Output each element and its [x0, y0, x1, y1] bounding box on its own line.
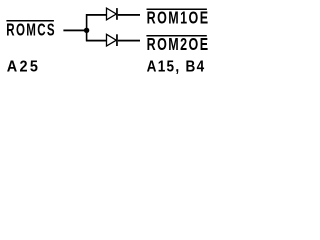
net label ROM1OE (active-low, overline) — [147, 8, 210, 28]
svg-text:ROM1OE: ROM1OE — [147, 8, 210, 28]
svg-text:ROM2OE: ROM2OE — [147, 34, 210, 54]
wire ROMCS to junction — [63, 30, 86, 32]
wire D2 cathode to ROM2OE — [118, 40, 140, 42]
diode D2 — [107, 34, 118, 46]
svg-text:ROMCS: ROMCS — [6, 20, 56, 40]
net label ROM2OE (active-low, overline) — [146, 34, 209, 54]
svg-text:A15, B4: A15, B4 — [147, 58, 206, 75]
svg-text:A25: A25 — [7, 59, 40, 76]
wire to diode D2 anode — [86, 40, 107, 42]
wire D1 cathode to ROM1OE — [118, 14, 140, 16]
wire to diode D1 anode — [86, 14, 107, 16]
junction dot — [84, 28, 89, 33]
wire vertical branch between diode rows — [86, 14, 88, 41]
diode D1 — [107, 8, 118, 20]
net label ROMCS (active-low, overline) — [6, 20, 56, 40]
